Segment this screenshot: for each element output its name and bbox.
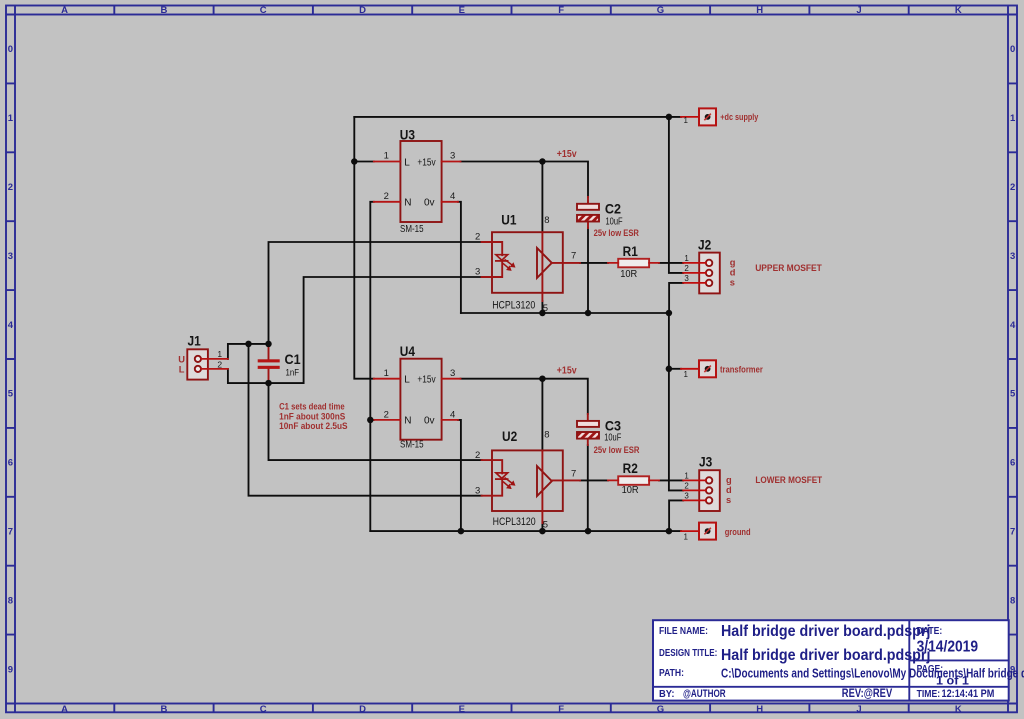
svg-text:Half bridge driver board.pdspr: Half bridge driver board.pdsprj <box>721 646 930 664</box>
svg-text:25v low ESR: 25v low ESR <box>594 444 640 455</box>
svg-text:4: 4 <box>450 191 455 202</box>
junction ground rail pin5 <box>539 528 546 535</box>
wire net U: C1 top down to U2 pin3 <box>249 344 482 496</box>
junction upper 0v rail C2 <box>585 310 592 317</box>
svg-text:FILE NAME:: FILE NAME: <box>659 625 708 636</box>
DC-DC module U3 <box>374 141 461 222</box>
svg-text:2: 2 <box>8 182 13 193</box>
junction top rail net U left <box>245 341 252 348</box>
wire U2 pin8 <box>541 379 543 451</box>
svg-text:HCPL3120: HCPL3120 <box>493 516 536 528</box>
capacitor C1 <box>258 346 280 383</box>
svg-text:1: 1 <box>217 349 222 359</box>
wire U3 pin4 0v down <box>458 202 461 313</box>
svg-text:H: H <box>756 704 763 715</box>
svg-text:4: 4 <box>1010 320 1016 331</box>
svg-text:U2: U2 <box>502 428 517 444</box>
svg-text:+dc supply: +dc supply <box>720 111 758 122</box>
svg-text:1: 1 <box>683 532 688 541</box>
svg-text:5: 5 <box>1010 389 1016 400</box>
svg-text:D: D <box>359 704 366 715</box>
svg-text:TIME:: TIME: <box>917 688 940 699</box>
svg-text:N: N <box>404 198 411 209</box>
svg-text:A: A <box>61 704 68 715</box>
junction ground rail U4 0v <box>458 528 465 535</box>
svg-text:H: H <box>756 5 763 16</box>
terminal +dc supply <box>681 108 716 125</box>
junction upper 0v rail pin5 <box>539 310 546 317</box>
junction ground rail C3 <box>585 528 592 535</box>
wire +15v lower rail <box>461 379 588 414</box>
svg-text:REV:@REV: REV:@REV <box>842 687 892 700</box>
svg-text:9: 9 <box>8 664 13 675</box>
svg-text:BY:: BY: <box>659 689 674 700</box>
svg-text:5: 5 <box>543 520 548 531</box>
svg-text:R1: R1 <box>623 243 638 259</box>
svg-text:2: 2 <box>684 482 689 491</box>
junction bottom rail C1 <box>265 380 272 387</box>
svg-text:8: 8 <box>1010 595 1015 606</box>
wire U3 pin1 stub feed <box>354 161 374 163</box>
junction +dc rail <box>666 114 673 121</box>
wire J1 pin2 to C1 bottom rail to U1 pin3 <box>228 277 482 383</box>
wire U4 pin4 0v down <box>458 420 461 531</box>
svg-text:3: 3 <box>1010 251 1015 262</box>
svg-text:SM-15: SM-15 <box>400 439 424 450</box>
svg-text:J: J <box>856 704 861 715</box>
capacitor C3 <box>577 414 599 445</box>
svg-text:G: G <box>657 5 664 16</box>
svg-text:10uF: 10uF <box>606 215 624 226</box>
svg-text:s: s <box>726 495 731 505</box>
svg-text:1: 1 <box>384 368 389 379</box>
svg-text:25v low ESR: 25v low ESR <box>594 227 639 238</box>
svg-text:1nF: 1nF <box>286 367 299 378</box>
capacitor C2 <box>577 197 599 228</box>
svg-text:2: 2 <box>384 409 389 420</box>
svg-text:U3: U3 <box>400 126 415 142</box>
svg-text:F: F <box>558 704 564 715</box>
wire J2 pin3 down to 0v rail <box>669 283 683 313</box>
svg-text:U1: U1 <box>501 211 516 227</box>
svg-text:1: 1 <box>384 151 389 162</box>
svg-text:ground: ground <box>725 526 751 537</box>
svg-text:7: 7 <box>1010 527 1015 538</box>
connector J3 <box>683 470 720 511</box>
terminal transformer <box>681 360 716 377</box>
wire +15v upper rail <box>461 162 589 198</box>
junction +15v upper rail <box>539 158 546 165</box>
svg-text:3: 3 <box>450 151 455 162</box>
svg-text:3: 3 <box>684 492 689 501</box>
svg-text:SM-15: SM-15 <box>400 223 424 234</box>
wire U1 pin8 <box>541 162 543 233</box>
svg-text:3: 3 <box>684 274 689 283</box>
svg-text:U: U <box>178 354 185 364</box>
svg-text:5: 5 <box>543 303 548 314</box>
svg-text:d: d <box>730 268 736 278</box>
wire ground rail <box>370 530 681 532</box>
svg-text:2: 2 <box>384 191 389 202</box>
DC-DC module U4 <box>374 359 461 440</box>
optocoupler U1 <box>482 232 580 301</box>
svg-text:10R: 10R <box>620 269 637 280</box>
wire R2 to J3 pin1 <box>659 479 683 481</box>
svg-text:8: 8 <box>544 215 549 226</box>
svg-text:J3: J3 <box>699 453 712 469</box>
wire U4 pin2 feed <box>370 419 374 421</box>
svg-text:d: d <box>726 485 732 495</box>
svg-text:C:\Documents and Settings\Leno: C:\Documents and Settings\Lenovo\My Docu… <box>721 668 1024 681</box>
resistor R1 <box>608 259 659 268</box>
svg-text:+15v: +15v <box>417 157 436 168</box>
wire R1 to J2 pin1 <box>659 262 683 264</box>
svg-text:L: L <box>404 157 410 168</box>
svg-text:7: 7 <box>8 527 13 538</box>
svg-text:10nF about 2.5uS: 10nF about 2.5uS <box>279 421 348 432</box>
svg-text:C1: C1 <box>285 352 302 368</box>
wire transformer stub feed <box>669 368 681 370</box>
junction ground rail right <box>666 528 673 535</box>
svg-text:L: L <box>179 364 185 374</box>
svg-text:K: K <box>955 704 962 715</box>
svg-text:LOWER MOSFET: LOWER MOSFET <box>755 474 822 485</box>
resistor R2 <box>608 476 659 485</box>
junction U4 pin2 <box>367 417 374 424</box>
svg-text:UPPER MOSFET: UPPER MOSFET <box>755 263 822 273</box>
wire C3 bottom to ground rail <box>587 445 589 531</box>
svg-text:g: g <box>730 258 736 268</box>
svg-text:B: B <box>160 704 167 715</box>
svg-text:E: E <box>459 704 465 715</box>
svg-text:+15v: +15v <box>417 374 436 385</box>
svg-text:F: F <box>558 5 564 16</box>
svg-text:8: 8 <box>8 595 13 606</box>
wire U1 pin7 to R1 <box>580 262 608 264</box>
svg-text:2: 2 <box>217 359 222 369</box>
svg-text:N: N <box>404 416 411 427</box>
svg-text:6: 6 <box>1010 458 1015 469</box>
svg-text:1: 1 <box>683 370 688 379</box>
svg-text:7: 7 <box>571 251 576 262</box>
svg-text:C: C <box>260 704 267 715</box>
svg-text:2: 2 <box>475 450 480 461</box>
svg-text:3: 3 <box>475 267 480 278</box>
connector J2 <box>683 253 720 294</box>
wire +dc down to J2 pin2 <box>669 117 683 273</box>
svg-text:10R: 10R <box>622 485 639 496</box>
svg-text:1: 1 <box>1010 113 1016 124</box>
svg-text:8: 8 <box>544 429 549 440</box>
svg-text:D: D <box>359 5 366 16</box>
wire +dc vertical to U3 pin1 and U4 pin1 <box>354 117 374 379</box>
svg-text:J2: J2 <box>698 237 711 253</box>
svg-text:10uF: 10uF <box>604 432 622 443</box>
svg-text:PATH:: PATH: <box>659 667 684 678</box>
wire C2 bottom to 0v rail <box>587 228 589 313</box>
wire upper 0v rail <box>461 312 669 314</box>
wire net L: C1 bottom down to U2 pin2 <box>269 383 482 460</box>
svg-text:L: L <box>404 375 410 386</box>
svg-text:1: 1 <box>684 254 689 263</box>
wire N net: U3 pin2 to U4 pin2 to ground rail <box>370 202 374 531</box>
wire U2 pin5 <box>541 523 543 531</box>
svg-text:2: 2 <box>684 264 689 273</box>
svg-text:+15v: +15v <box>557 364 578 376</box>
svg-text:G: G <box>657 704 664 715</box>
svg-text:2: 2 <box>475 232 480 243</box>
svg-text:3: 3 <box>450 368 455 379</box>
svg-text:4: 4 <box>450 409 455 420</box>
wire +dc supply rail <box>354 116 681 118</box>
junction transformer node <box>666 366 673 373</box>
junction +15v lower rail <box>539 375 546 382</box>
svg-text:J: J <box>856 5 861 16</box>
svg-text:1: 1 <box>684 472 689 481</box>
svg-text:3: 3 <box>475 485 480 496</box>
connector J1 <box>187 349 228 379</box>
svg-text:0: 0 <box>1010 44 1015 55</box>
svg-text:transformer: transformer <box>720 364 763 375</box>
svg-text:s: s <box>730 278 735 288</box>
svg-text:R2: R2 <box>623 460 638 476</box>
svg-text:+15v: +15v <box>557 147 578 159</box>
svg-text:@AUTHOR: @AUTHOR <box>683 688 726 701</box>
wire U2 pin7 to R2 <box>580 479 608 481</box>
svg-text:DESIGN TITLE:: DESIGN TITLE: <box>659 647 717 658</box>
wire J3 pin3 down to ground rail <box>669 500 683 531</box>
svg-text:3: 3 <box>8 251 13 262</box>
svg-text:HCPL3120: HCPL3120 <box>492 300 535 312</box>
wire U1 pin5 <box>541 301 543 313</box>
title block <box>653 620 1024 700</box>
svg-text:E: E <box>459 5 465 16</box>
wire net U: C1 top up to U1 pin2 <box>269 242 482 344</box>
svg-text:1: 1 <box>8 113 14 124</box>
svg-text:C: C <box>260 5 267 16</box>
svg-text:0: 0 <box>8 44 13 55</box>
svg-text:5: 5 <box>8 389 14 400</box>
svg-text:7: 7 <box>571 468 576 479</box>
wire J1 pin1 to C1 top rail <box>228 344 269 359</box>
svg-text:B: B <box>160 5 167 16</box>
svg-text:J1: J1 <box>188 332 201 348</box>
junction U3 pin1 <box>351 158 358 165</box>
svg-text:U4: U4 <box>400 343 416 359</box>
svg-text:4: 4 <box>8 320 14 331</box>
svg-text:0v: 0v <box>424 198 435 209</box>
svg-text:0v: 0v <box>424 416 435 427</box>
svg-text:1: 1 <box>683 116 688 125</box>
svg-text:A: A <box>61 5 68 16</box>
junction upper 0v rail right <box>666 310 673 317</box>
svg-text:K: K <box>955 5 962 16</box>
svg-text:12:14:41 PM: 12:14:41 PM <box>942 688 995 700</box>
svg-text:g: g <box>726 475 732 485</box>
svg-text:2: 2 <box>1010 182 1015 193</box>
junction top rail C1 <box>265 341 272 348</box>
terminal ground <box>681 523 716 540</box>
svg-text:6: 6 <box>8 458 13 469</box>
svg-text:Half bridge driver board.pdspr: Half bridge driver board.pdsprj <box>721 622 930 640</box>
optocoupler U2 <box>482 450 580 523</box>
wire midpoint: 0v rail to transformer to J3 pin2 <box>669 313 683 490</box>
